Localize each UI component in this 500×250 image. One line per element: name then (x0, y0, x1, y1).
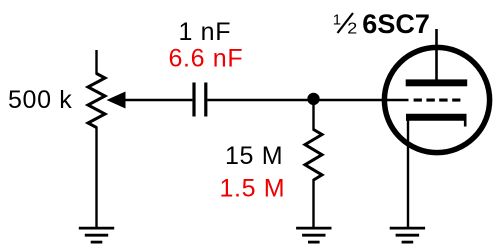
label 1/2 6SC7 (tube designation) (333, 9, 430, 39)
svg-text:1.5 M: 1.5 M (220, 175, 286, 203)
potentiometer R1 bottom lead wire (95, 127, 97, 229)
tube U1 plate lead wire (435, 29, 438, 82)
ground (under potentiometer) (79, 228, 114, 242)
wiper arrow head (points at potentiometer) (107, 92, 126, 109)
svg-text:2: 2 (347, 21, 357, 38)
tube U1 cathode bar with right leg (406, 114, 467, 127)
tube U1 plate bar (406, 79, 468, 86)
capacitor C1 right plate (204, 83, 207, 117)
wire: capacitor to tube grid (207, 99, 408, 101)
resistor R2 top lead wire (312, 100, 314, 131)
svg-text:6SC7: 6SC7 (362, 9, 430, 39)
svg-text:15 M: 15 M (225, 142, 283, 170)
capacitor C1 left plate (192, 83, 195, 117)
ground (under resistor R2) (296, 228, 331, 242)
resistor R2 bottom lead wire (312, 179, 314, 228)
wire: arrow to capacitor (123, 99, 192, 101)
tube U1 grid (dashed) (414, 99, 461, 102)
potentiometer R1 top lead wire (95, 50, 97, 75)
resistor R2 zigzag body (305, 130, 322, 181)
tube U1 envelope circle (384, 47, 489, 152)
tube U1 cathode lead wire (407, 119, 409, 228)
svg-text:500 k: 500 k (8, 86, 72, 114)
svg-text:1: 1 (333, 12, 341, 29)
potentiometer R1 zigzag body (88, 74, 105, 128)
svg-text:1 nF: 1 nF (179, 18, 232, 46)
svg-text:6.6 nF: 6.6 nF (169, 45, 244, 73)
ground (under tube cathode) (390, 228, 425, 242)
junction node dot (307, 93, 319, 105)
